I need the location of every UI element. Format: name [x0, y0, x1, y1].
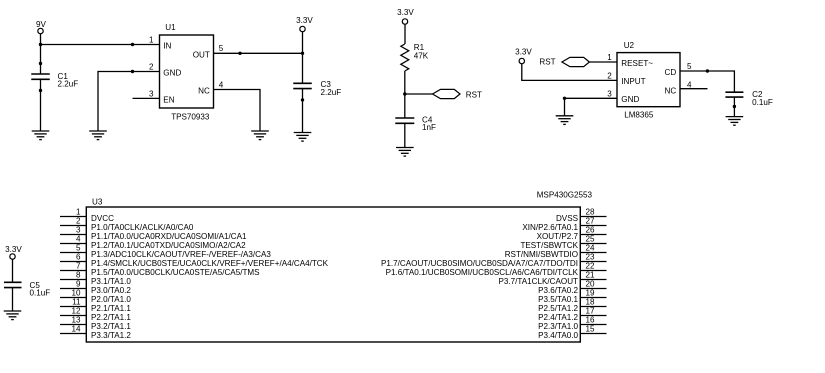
- svg-text:1: 1: [149, 36, 154, 45]
- svg-text:P2.1/TA1.1: P2.1/TA1.1: [91, 304, 131, 313]
- ground below C4: [396, 148, 414, 157]
- svg-text:P1.0/TA0CLK/ACLK/A0/CA0: P1.0/TA0CLK/ACLK/A0/CA0: [91, 223, 194, 232]
- U3 pin 11 (P2.1/TA1.1): [60, 298, 131, 313]
- svg-text:5: 5: [219, 44, 224, 53]
- capacitor C1: [31, 74, 50, 79]
- svg-text:4: 4: [76, 235, 81, 244]
- U3 pin 15 (P3.4/TA0.0): [538, 325, 606, 340]
- wire U1 OUT pin 5 to 3.3V node: [214, 52, 303, 54]
- svg-text:RST: RST: [539, 58, 555, 67]
- junction dot below C2: [733, 105, 736, 108]
- svg-text:2: 2: [76, 217, 81, 226]
- U3 pin 16 (P2.3/TA1.0): [538, 316, 606, 331]
- svg-text:1: 1: [76, 208, 81, 217]
- svg-text:P2.4/TA1.2: P2.4/TA1.2: [538, 313, 578, 322]
- wire 9V vertical to C1: [40, 34, 42, 74]
- svg-text:3: 3: [76, 226, 81, 235]
- svg-text:P3.2/TA1.1: P3.2/TA1.1: [91, 322, 131, 331]
- svg-text:0.1uF: 0.1uF: [752, 98, 773, 107]
- svg-text:3: 3: [607, 89, 612, 98]
- U3 pin 8 (P3.1/TA1.0): [60, 271, 131, 286]
- U3 pin 5 (P1.3/ADC10CLK/CAOUT/VREF-/VEREF-/A3/CA3): [60, 244, 271, 259]
- capacitor C5: [4, 282, 22, 287]
- svg-text:19: 19: [586, 289, 596, 298]
- ground below C1: [32, 131, 50, 140]
- capacitor C4: [395, 118, 414, 123]
- resistor R1: [401, 43, 429, 71]
- svg-text:4: 4: [219, 80, 224, 89]
- svg-text:0.1uF: 0.1uF: [30, 289, 51, 298]
- junction dot on GND wire: [131, 70, 134, 73]
- svg-text:P3.7/TA1CLK/CAOUT: P3.7/TA1CLK/CAOUT: [499, 277, 579, 286]
- svg-text:U1: U1: [165, 23, 176, 32]
- svg-text:INPUT: INPUT: [621, 77, 645, 86]
- svg-text:P1.2/TA0.1/UCA0TXD/UCA0SIMO/A2: P1.2/TA0.1/UCA0TXD/UCA0SIMO/A2/CA2: [91, 241, 246, 250]
- svg-text:U2: U2: [624, 41, 635, 50]
- wire C4 to ground: [404, 124, 406, 148]
- wire stub U1 EN pin 3: [133, 97, 160, 99]
- svg-text:XIN/P2.6/TA0.1: XIN/P2.6/TA0.1: [522, 223, 578, 232]
- U3 pin 23 (P1.7/CAOUT/UCB0SIMO/UCB0SDA/A7/CA7/TDO/TDI): [381, 253, 607, 268]
- wire 3.3V to U2 INPUT pin 2: [521, 64, 523, 81]
- svg-text:3: 3: [149, 89, 154, 98]
- svg-text:47K: 47K: [414, 52, 429, 61]
- svg-text:P1.6/TA0.1/UCB0SOMI/UCB0SCL/A6: P1.6/TA0.1/UCB0SOMI/UCB0SCL/A6/CA6/TDI/T…: [386, 268, 579, 277]
- svg-text:21: 21: [586, 271, 596, 280]
- power terminal 3.3V (pullup): [397, 8, 414, 24]
- svg-text:TPS70933: TPS70933: [171, 112, 210, 121]
- U3 pin 3 (P1.1/TA0.0/UCA0RXD/UCA0SOMI/A1/CA1): [60, 226, 247, 241]
- capacitor C2: [725, 92, 743, 97]
- wire U1 GND pin 2 to ground: [98, 71, 160, 73]
- svg-text:26: 26: [586, 226, 596, 235]
- svg-text:7: 7: [76, 262, 81, 271]
- junction dot RST node: [403, 92, 406, 95]
- svg-text:P1.3/ADC10CLK/CAOUT/VREF-/VERE: P1.3/ADC10CLK/CAOUT/VREF-/VEREF-/A3/CA3: [91, 250, 271, 259]
- svg-text:6: 6: [76, 253, 81, 262]
- svg-text:28: 28: [586, 208, 596, 217]
- svg-text:3.3V: 3.3V: [515, 48, 532, 57]
- svg-text:22: 22: [586, 262, 596, 271]
- ground below U1 GND: [89, 131, 107, 140]
- svg-text:25: 25: [586, 235, 596, 244]
- svg-text:1nF: 1nF: [422, 123, 436, 132]
- ground below NC wire: [251, 131, 269, 140]
- svg-text:CD: CD: [664, 68, 676, 77]
- ground below C2: [726, 117, 744, 126]
- U3 pin 14 (P3.3/TA1.2): [60, 325, 131, 340]
- power terminal 3.3V (C5): [5, 245, 22, 259]
- wire 3.3V down to C3: [302, 32, 304, 84]
- svg-text:18: 18: [586, 298, 596, 307]
- svg-text:24: 24: [586, 244, 596, 253]
- junction dot on IN wire: [131, 43, 134, 46]
- svg-text:3.3V: 3.3V: [5, 245, 22, 254]
- svg-text:2: 2: [149, 63, 154, 72]
- U3 pin 21 (P3.7/TA1CLK/CAOUT): [499, 271, 607, 286]
- svg-text:8: 8: [76, 271, 81, 280]
- svg-text:DVSS: DVSS: [556, 214, 579, 223]
- svg-text:9: 9: [76, 280, 81, 289]
- regulator U1 TPS70933: [149, 23, 224, 121]
- U3 pin 10 (P2.0/TA1.0): [60, 289, 131, 304]
- svg-text:DVCC: DVCC: [91, 214, 114, 223]
- svg-text:14: 14: [71, 325, 81, 334]
- svg-text:RST: RST: [466, 90, 482, 99]
- U3 pin 17 (P2.4/TA1.2): [538, 307, 606, 322]
- svg-text:27: 27: [586, 217, 596, 226]
- svg-text:16: 16: [586, 316, 596, 325]
- svg-text:MSP430G2553: MSP430G2553: [537, 191, 593, 200]
- U3 pin 27 (XIN/P2.6/TA0.1): [522, 217, 606, 232]
- capacitor C3: [293, 83, 312, 88]
- svg-text:3.3V: 3.3V: [296, 16, 313, 25]
- U3 pin 22 (P1.6/TA0.1/UCB0SOMI/UCB0SCL/A6/CA6/TDI/TCLK): [386, 262, 607, 277]
- U3 pin 4 (P1.2/TA0.1/UCA0TXD/UCA0SIMO/A2/CA2): [60, 235, 246, 250]
- svg-text:U3: U3: [92, 198, 103, 207]
- wire U2 CD pin 5 to C2: [680, 70, 734, 72]
- svg-text:P1.4/SMCLK/UCB0STE/UCA0CLK/VRE: P1.4/SMCLK/UCB0STE/UCA0CLK/VREF+/VEREF+/…: [91, 259, 329, 268]
- junction dot below C1: [39, 89, 42, 92]
- svg-text:2.2uF: 2.2uF: [58, 80, 79, 89]
- svg-text:20: 20: [586, 280, 596, 289]
- U3 pin 18 (P2.5/TA1.2): [538, 298, 606, 313]
- svg-text:XOUT/P2.7: XOUT/P2.7: [537, 232, 579, 241]
- svg-text:GND: GND: [621, 95, 639, 104]
- svg-text:3.3V: 3.3V: [397, 8, 414, 17]
- wire RST node to flag: [405, 93, 433, 95]
- svg-text:P3.6/TA0.2: P3.6/TA0.2: [538, 286, 578, 295]
- svg-text:OUT: OUT: [193, 50, 210, 59]
- ground below U2 GND: [556, 116, 574, 125]
- U3 pin 6 (P1.4/SMCLK/UCB0STE/UCA0CLK/VREF+/VEREF+/A4/CA4/TCK): [60, 253, 329, 268]
- net flag RST: [433, 89, 483, 99]
- wire C5 to ground: [12, 288, 14, 311]
- junction dot on U2 GND wire: [563, 97, 566, 100]
- svg-text:11: 11: [72, 298, 81, 307]
- wire U1 NC pin 4 to ground: [214, 89, 261, 91]
- junction dot on OUT wire: [238, 52, 241, 55]
- svg-text:P2.0/TA1.0: P2.0/TA1.0: [91, 295, 131, 304]
- junction dot below C3: [301, 98, 304, 101]
- junction dot on CD wire: [706, 69, 709, 72]
- U3 pin 13 (P3.2/TA1.1): [60, 316, 131, 331]
- svg-text:2.2uF: 2.2uF: [321, 88, 342, 97]
- svg-text:P3.3/TA1.2: P3.3/TA1.2: [91, 331, 131, 340]
- U3 pin 7 (P1.5/TA0.0/UCB0CLK/UCA0STE/A5/CA5/TMS): [60, 262, 260, 277]
- wire stub U2 NC pin 4: [680, 88, 708, 90]
- power terminal 3.3V (U2 supply): [515, 48, 532, 64]
- power terminal 9V: [36, 20, 47, 34]
- svg-text:P3.5/TA0.1: P3.5/TA0.1: [538, 295, 578, 304]
- svg-text:17: 17: [586, 307, 596, 316]
- U3 pin 12 (P2.2/TA1.1): [60, 307, 131, 322]
- svg-text:P2.2/TA1.1: P2.2/TA1.1: [91, 313, 131, 322]
- junction dot 9V/IN branch: [39, 43, 42, 46]
- wire U2 GND pin 3 to ground: [565, 97, 618, 99]
- svg-text:LM8365: LM8365: [624, 111, 654, 120]
- svg-text:9V: 9V: [36, 20, 47, 29]
- svg-text:RST/NMI/SBWTDIO: RST/NMI/SBWTDIO: [505, 250, 578, 259]
- svg-text:NC: NC: [198, 87, 210, 96]
- ground below C5: [4, 311, 22, 320]
- svg-text:P3.4/TA0.0: P3.4/TA0.0: [538, 331, 578, 340]
- svg-text:P1.5/TA0.0/UCB0CLK/UCA0STE/A5/: P1.5/TA0.0/UCB0CLK/UCA0STE/A5/CA5/TMS: [91, 268, 260, 277]
- wire C3 to ground: [302, 89, 304, 133]
- microcontroller U3 MSP430G2553 body: [86, 191, 592, 343]
- svg-text:23: 23: [586, 253, 596, 262]
- svg-text:EN: EN: [163, 95, 174, 104]
- wire 3.3V to C5: [12, 259, 14, 282]
- U3 pin 9 (P3.0/TA0.2): [60, 280, 131, 295]
- U3 pin 24 (RST/NMI/SBWTDIO): [505, 244, 607, 259]
- U3 pin 20 (P3.6/TA0.2): [538, 280, 606, 295]
- net flag RST to U2 RESET pin 1: [539, 57, 617, 66]
- wire 9V to U1 IN pin 1: [41, 44, 160, 46]
- wire C1 to ground: [40, 79, 42, 131]
- junction dot OUT/3.3V/C3: [301, 52, 304, 55]
- wire C2 to ground: [733, 97, 735, 116]
- ground below C3: [294, 133, 312, 142]
- svg-text:IN: IN: [163, 42, 171, 51]
- svg-text:P3.1/TA1.0: P3.1/TA1.0: [91, 277, 131, 286]
- svg-text:GND: GND: [163, 69, 181, 78]
- svg-text:5: 5: [687, 62, 692, 71]
- svg-text:15: 15: [586, 325, 596, 334]
- svg-text:TEST/SBWTCK: TEST/SBWTCK: [520, 241, 578, 250]
- U3 pin 26 (XOUT/P2.7): [537, 226, 607, 241]
- U3 pin 1 (DVCC): [60, 208, 114, 223]
- wire R1 to C4: [404, 71, 406, 118]
- supervisor U2 LM8365: [607, 41, 692, 119]
- svg-text:RESET~: RESET~: [621, 59, 653, 68]
- U3 pin 19 (P3.5/TA0.1): [538, 289, 606, 304]
- wire 3.3V to R1: [404, 24, 406, 44]
- svg-text:12: 12: [71, 307, 81, 316]
- svg-text:P2.3/TA1.0: P2.3/TA1.0: [538, 322, 578, 331]
- U3 pin 25 (TEST/SBWTCK): [520, 235, 606, 250]
- U3 pin 2 (P1.0/TA0CLK/ACLK/A0/CA0): [60, 217, 194, 232]
- power terminal 3.3V (regulator output): [296, 16, 313, 32]
- svg-text:1: 1: [607, 53, 612, 62]
- svg-text:P1.7/CAOUT/UCB0SIMO/UCB0SDA/A7: P1.7/CAOUT/UCB0SIMO/UCB0SDA/A7/CA7/TDO/T…: [381, 259, 578, 268]
- svg-text:P3.0/TA0.2: P3.0/TA0.2: [91, 286, 131, 295]
- svg-text:P1.1/TA0.0/UCA0RXD/UCA0SOMI/A1: P1.1/TA0.0/UCA0RXD/UCA0SOMI/A1/CA1: [91, 232, 247, 241]
- svg-text:P2.5/TA1.2: P2.5/TA1.2: [538, 304, 578, 313]
- svg-text:10: 10: [71, 289, 81, 298]
- svg-text:5: 5: [76, 244, 81, 253]
- svg-text:2: 2: [607, 71, 612, 80]
- svg-text:NC: NC: [664, 87, 676, 96]
- svg-text:13: 13: [71, 316, 81, 325]
- junction dot above C1: [39, 62, 42, 65]
- U3 pin 28 (DVSS): [556, 208, 607, 223]
